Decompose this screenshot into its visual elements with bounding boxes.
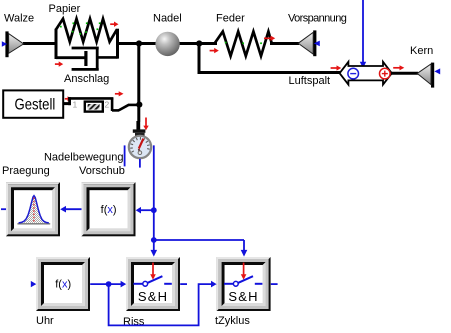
force source Vorspannung	[298, 30, 320, 56]
force arrow at node C pointing down	[143, 118, 148, 131]
wire actuator to Kern	[391, 72, 418, 75]
svg-text:Nadelbewegung: Nadelbewegung	[44, 152, 124, 164]
force arrow Papier bottom left	[55, 61, 63, 66]
svg-text:Luftspalt: Luftspalt	[289, 75, 331, 87]
mass Nadel	[155, 32, 179, 56]
svg-text:f(x): f(x)	[55, 279, 71, 291]
signal wire node E down to Riss	[151, 240, 158, 257]
force arrow Feder top right	[264, 36, 275, 41]
wire node B down and right to Luftspalt actuator	[199, 43, 340, 72]
block Vorschub f(x)	[82, 182, 136, 236]
signal node E	[151, 237, 157, 243]
svg-text:S&H: S&H	[138, 289, 168, 304]
green markers on Papier spring	[60, 22, 101, 34]
svg-text:Praegung: Praegung	[2, 165, 50, 177]
signal stub tZyklus output	[271, 283, 278, 285]
force arrow Feder bottom left	[210, 48, 219, 53]
signal wire node E right to tZyklus	[154, 239, 244, 241]
signal stub Riss output	[180, 283, 187, 285]
svg-text:Vorspannung: Vorspannung	[288, 13, 347, 25]
sensor pin middle	[139, 159, 141, 168]
wire node A down to sensor Nadelbewegung	[137, 42, 140, 122]
signal node D	[151, 207, 157, 213]
signal arrow into Uhr	[31, 281, 37, 287]
frame Gestell	[3, 90, 63, 117]
spring Feder	[215, 32, 272, 57]
block Praegung	[6, 182, 60, 236]
svg-text:Papier: Papier	[49, 3, 81, 15]
svg-text:Uhr: Uhr	[36, 315, 54, 327]
wire Feder to Vorspannung	[270, 42, 299, 45]
green markers on Feder spring	[225, 42, 262, 44]
signal wire Uhr to Riss	[90, 281, 126, 288]
stop element Anschlag	[68, 97, 138, 111]
signal node F below Uhr output	[106, 281, 112, 287]
wire Walze to Papier	[23, 42, 56, 45]
force source Walze	[2, 31, 24, 57]
signal wire to Vorschub input	[136, 207, 154, 214]
svg-text:Kern: Kern	[410, 45, 433, 57]
force source Kern	[417, 63, 440, 88]
signal wire from top into actuator	[360, 0, 366, 68]
sensor pin left	[124, 145, 126, 166]
svg-text:Walze: Walze	[4, 13, 34, 25]
svg-text:f(x): f(x)	[101, 204, 117, 216]
signal wire sensor right pin down to junctions	[153, 145, 155, 240]
force arrow Gestell output	[65, 96, 72, 101]
svg-text:Feder: Feder	[216, 13, 245, 25]
node B junction	[196, 40, 202, 46]
svg-text:S&H: S&H	[228, 289, 258, 304]
svg-text:Anschlag: Anschlag	[64, 73, 109, 85]
force arrow actuator left	[331, 65, 342, 70]
signal wire down to tZyklus top	[241, 240, 248, 257]
force arrow actuator right	[393, 65, 404, 70]
force arrow Papier top right	[110, 22, 118, 27]
signal wire Vorschub to Praegung	[60, 206, 81, 213]
wire Papier to Feder (through node A and mass Nadel)	[117, 42, 217, 45]
svg-text:1: 1	[73, 100, 78, 110]
signal wire node F around bottom to tZyklus input	[109, 281, 217, 326]
signal stub Praegung left	[1, 208, 6, 210]
svg-text:2: 2	[105, 100, 110, 110]
electromagnet actuator Luftspalt	[340, 62, 392, 85]
block Riss S&H	[126, 257, 180, 311]
svg-text:Nadel: Nadel	[153, 13, 182, 25]
node C junction (Anschlag / sensor line)	[136, 102, 142, 108]
svg-text:Gestell: Gestell	[15, 96, 56, 113]
svg-text:Vorschub: Vorschub	[79, 165, 125, 177]
sensor Nadelbewegung (gauge)	[129, 121, 151, 158]
spring-damper Papier	[56, 19, 118, 70]
block tZyklus S&H	[217, 257, 271, 311]
block Uhr f(x)	[36, 257, 90, 311]
force arrow Anschlag right	[115, 91, 124, 96]
svg-text:tZyklus: tZyklus	[215, 315, 250, 327]
node A junction	[136, 40, 142, 46]
wire Gestell to Anschlag	[64, 102, 71, 105]
